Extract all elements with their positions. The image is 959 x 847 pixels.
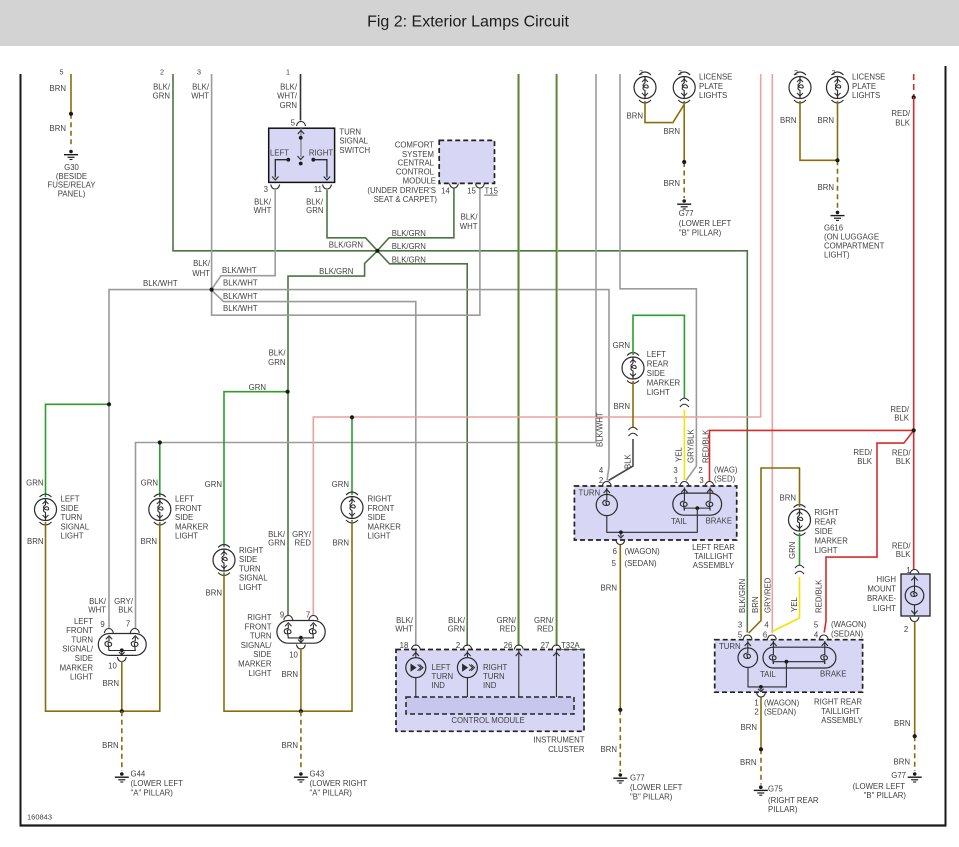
svg-text:ASSEMBLY: ASSEMBLY [693,561,735,570]
svg-text:BLK/GRN: BLK/GRN [392,229,426,238]
cluster pin 26 internal wire [516,651,522,698]
svg-text:MARKER: MARKER [368,522,402,531]
label WAGON SEDAN at right taillight top [831,620,867,639]
vertical label BRN right taillight [751,597,760,613]
node GRN tap on BLK/WHT [107,402,111,406]
wire GRN tap to left side turn signal light [46,404,109,497]
control module box [406,697,574,714]
left taillight pin 6 connector bottom [616,540,625,545]
label BRN at right front side marker [333,539,349,548]
svg-text:BRN: BRN [333,539,349,548]
svg-text:RED/: RED/ [892,541,911,550]
left rear side marker light bulb [622,353,644,384]
high mount pin 2 connector [904,617,919,634]
right front side marker light bulb [341,492,363,523]
wire GRN tap to right side turn signal light [224,392,287,547]
svg-text:9: 9 [100,620,104,629]
svg-text:MODULE: MODULE [403,177,436,186]
svg-text:SWITCH: SWITCH [339,146,370,155]
svg-text:G75: G75 [768,784,783,793]
label RIGHT REAR SIDE MARKER LIGHT [815,508,849,555]
label G616 (ON LUGGAGE COMPARTMENT LIGHT) [824,224,885,260]
wire GRY/BLK from top to left rear taillight pin 1 [620,74,696,481]
wire BRN right rear marker top [749,468,800,633]
svg-text:MOUNT: MOUNT [867,585,896,594]
svg-text:7: 7 [126,620,130,629]
svg-text:GRN: GRN [26,478,43,487]
svg-text:IND: IND [432,681,446,690]
pin number 1 cut at top [286,68,290,77]
svg-text:5: 5 [612,559,617,568]
svg-text:10: 10 [108,662,117,671]
label RED/BLK above junction [890,405,909,423]
svg-text:BLK/: BLK/ [153,83,171,92]
svg-text:WHT: WHT [88,606,106,615]
wire BRN dashed to G43 [300,711,302,771]
svg-text:SIGNAL/: SIGNAL/ [62,645,94,654]
ground G77 right [908,772,922,782]
vertical label BLK/GRN right taillight [738,579,747,613]
svg-text:LIGHT: LIGHT [239,583,262,592]
svg-text:G30: G30 [64,163,79,172]
svg-text:10: 10 [289,651,298,660]
cluster pin 26 connector [504,641,524,650]
svg-text:LIGHTS: LIGHTS [852,91,880,100]
svg-text:RED: RED [295,539,312,548]
label BRN at G77 upper [664,179,680,188]
svg-text:MARKER: MARKER [60,663,94,672]
label LEFT [270,149,289,158]
label INSTRUMENT CLUSTER [533,736,584,754]
wire RED/BLK horizontal to left rear taillight pin 3 [710,430,913,482]
left taillight pin 2 connector [599,466,611,486]
left taillight pin 3 connector [698,466,714,486]
wire GRY/BLK from top to left front turn signal pin 7 [136,74,597,628]
svg-text:SYSTEM: SYSTEM [402,150,434,159]
svg-text:BRN: BRN [282,670,298,679]
svg-text:GRN: GRN [448,625,465,634]
left rear taillight assembly box [574,486,736,540]
svg-text:MARKER: MARKER [175,522,209,531]
svg-text:T32A: T32A [561,641,580,650]
svg-text:GRN: GRN [788,542,797,559]
right side turn signal light bulb [213,545,235,576]
svg-text:TURN: TURN [483,672,505,681]
ground G30 [64,150,78,160]
label RED/BLK right of branch [892,449,911,467]
svg-text:FRONT: FRONT [66,626,93,635]
svg-text:TURN: TURN [250,632,272,641]
svg-text:BRN: BRN [740,758,756,767]
license plate light bulb left B [673,72,695,103]
svg-text:BLK/: BLK/ [280,83,298,92]
svg-text:BRN: BRN [664,127,680,136]
svg-text:BLK/WHT: BLK/WHT [223,304,258,313]
label YEL vertical [675,447,684,462]
ground G75 [754,785,768,795]
svg-text:BRN: BRN [627,112,643,121]
svg-text:SIDE: SIDE [815,527,833,536]
svg-text:BRN: BRN [894,719,910,728]
svg-text:YEL: YEL [675,447,684,462]
svg-text:G44: G44 [131,770,146,779]
vertical label GRY/RED right taillight [763,577,772,613]
svg-text:LIGHT: LIGHT [70,673,93,682]
svg-text:HIGH: HIGH [877,575,897,584]
wire BRN left front ground bus [46,522,160,711]
svg-text:BRN: BRN [206,589,222,598]
wire BLK/GRN pin 2 vertical to junction [173,74,376,251]
label G75 (RIGHT REAR PILLAR) [768,784,819,814]
svg-text:LIGHT: LIGHT [368,532,391,541]
wire GRN/RED to cluster pin 27 [556,74,557,646]
svg-text:WHT: WHT [254,206,272,215]
svg-text:WHT: WHT [191,92,209,101]
label BLK/WHT two line left of junction [192,259,211,278]
label BRN high mount upper [894,719,910,728]
cluster pin 27 internal wire [553,651,559,698]
label BLK/WHT at comfort pin 15 wire [460,213,479,232]
label BRN mid [50,124,66,133]
node GRN tap on GRY/RED [350,415,354,419]
label CONTROL MODULE [451,716,524,725]
svg-text:SIGNAL: SIGNAL [339,137,368,146]
right turn indicator lamp [457,651,477,698]
svg-text:BLK/GRN: BLK/GRN [319,267,353,276]
svg-text:BRAKE: BRAKE [820,670,846,679]
svg-text:TURN: TURN [339,127,361,136]
ground G43 [294,772,308,782]
svg-text:(LOWER LEFT: (LOWER LEFT [853,782,906,791]
node junction on BRN wire [69,112,73,116]
svg-text:BRN: BRN [818,183,834,192]
label G43 (LOWER RIGHT A PILLAR) [310,770,368,798]
license plate light bulb left A [634,72,656,103]
high mount bulb [905,576,924,617]
switch LEFT contact [272,158,290,180]
label LEFT REAR SIDE MARKER LIGHT [647,350,681,397]
wire RED/BLK dashed stub at top right [913,74,915,97]
svg-text:11: 11 [314,185,322,194]
svg-text:BRN: BRN [601,745,617,754]
svg-text:"A" PILLAR): "A" PILLAR) [310,789,353,798]
svg-text:LIGHT: LIGHT [815,546,838,555]
svg-text:4: 4 [764,621,769,630]
label GRN at right front side marker [332,480,349,489]
svg-text:BLK: BLK [624,453,633,469]
svg-text:2: 2 [794,70,798,77]
svg-text:FRONT: FRONT [245,622,272,631]
pin 2 cut above license right B [832,70,836,77]
comfort module pin 14 connector [441,184,458,196]
svg-text:WHT: WHT [395,625,413,634]
svg-text:"B" PILLAR): "B" PILLAR) [679,229,722,238]
left assembly pin 7 connector [126,620,139,634]
svg-text:27: 27 [541,641,550,650]
svg-text:18: 18 [400,641,409,650]
svg-text:LEFT REAR: LEFT REAR [692,543,735,552]
label GRN at right side turn signal [205,480,222,489]
left turn indicator lamp [406,651,426,698]
svg-text:3: 3 [699,476,703,485]
label GRN/RED at cluster pin 26 [497,616,517,634]
svg-text:BLK: BLK [857,457,873,466]
wire BLK/WHT junction to left rear taillight pin 2 [212,290,609,481]
label GRY/RED at right assembly [292,530,312,548]
label RIGHT TURN IND [483,663,507,690]
right taillight pin 1 connector bottom [757,693,766,698]
svg-text:"A" PILLAR): "A" PILLAR) [131,789,174,798]
label HIGH MOUNT BRAKE-LIGHT [867,575,896,613]
wire BRN from pin 5 to ground G30 [70,74,72,148]
label GRN at left side turn signal [26,478,43,487]
svg-text:BLK/: BLK/ [461,213,479,222]
label BLK/GRN at cluster pin 2 [448,616,466,634]
label BRN top [50,84,66,93]
svg-text:BRN: BRN [601,584,617,593]
svg-text:2: 2 [599,476,603,485]
label 6 WAGON 5 SEDAN [612,547,660,568]
svg-text:(LOWER LEFT: (LOWER LEFT [679,219,732,228]
svg-text:(LOWER RIGHT: (LOWER RIGHT [310,779,368,788]
svg-text:TAIL: TAIL [760,670,777,679]
svg-text:(WAGON): (WAGON) [625,547,661,556]
svg-text:1: 1 [286,68,290,77]
right taillight TURN bulb [738,641,758,668]
svg-text:CONTROL MODULE: CONTROL MODULE [451,716,524,725]
svg-text:IND: IND [483,681,497,690]
ground G44 [115,772,129,782]
label LEFT FRONT TURN SIGNAL SIDE MARKER LIGHT [60,617,94,682]
svg-text:GRY/RED: GRY/RED [763,577,772,613]
svg-text:BRN: BRN [50,124,66,133]
svg-text:PLATE: PLATE [699,82,723,91]
label BLK/GRN lower right [392,255,426,264]
label BLK/WHT line 4 [223,304,258,313]
label RIGHT FRONT SIDE MARKER LIGHT [368,495,402,541]
svg-text:2: 2 [678,70,682,77]
svg-text:YEL: YEL [790,597,799,612]
left taillight tail brake dual bulb [673,488,722,516]
left taillight pin 1 connector [673,466,689,486]
svg-text:RIGHT: RIGHT [247,613,271,622]
label BRN right rear marker [780,494,796,503]
wire BRN high mount to G77 right [914,622,916,772]
svg-text:2: 2 [904,625,908,634]
svg-text:GRN: GRN [613,341,630,350]
left front turn signal side marker assembly [98,634,146,656]
label BRN at right side turn signal [206,589,222,598]
svg-text:G77: G77 [679,209,694,218]
pin 2 cut above license left A [639,70,643,77]
cluster pin 18 connector [400,641,421,650]
label RED/BLK top right [891,109,910,127]
label RIGHT SIDE TURN SIGNAL LIGHT [239,546,268,592]
label BRN high mount lower [894,758,910,767]
label BRN license left B [664,127,680,136]
svg-text:TURN: TURN [432,672,454,681]
svg-text:WHT/: WHT/ [277,92,298,101]
svg-text:3: 3 [738,621,742,630]
wire BLK to left rear taillight pin 2 [609,439,634,481]
svg-text:BLK/WHT: BLK/WHT [223,292,258,301]
svg-text:BRN: BRN [741,723,757,732]
svg-text:MARKER: MARKER [647,379,681,388]
right rear side marker light bulb [789,505,811,536]
svg-text:PLATE: PLATE [852,82,876,91]
svg-text:SIGNAL: SIGNAL [239,574,268,583]
svg-text:LEFT: LEFT [270,149,289,158]
svg-text:Fig 2: Exterior Lamps Circuit: Fig 2: Exterior Lamps Circuit [367,14,569,31]
wire RED/BLK branch to right rear taillight pin 4 [824,432,912,633]
node BRN right taillight junction [759,747,763,751]
license plate light bulb right B [827,72,849,103]
drawing number 160843 [27,813,52,822]
svg-text:BRN: BRN [103,679,119,688]
label TURN left taillight [579,489,601,498]
node RED/BLK junction at 914,430 [912,428,916,432]
svg-text:BLK/GRN: BLK/GRN [738,579,747,613]
svg-text:GRN: GRN [306,206,323,215]
svg-text:BLK/: BLK/ [269,349,287,358]
svg-text:BRN: BRN [614,402,630,411]
svg-text:1: 1 [674,476,678,485]
wire YEL to left rear taillight pin 1 [683,410,685,480]
svg-text:5: 5 [291,119,296,128]
label BRN at G43 [282,741,298,750]
label BRN at left assembly pin 10 [103,679,119,688]
svg-text:GRN: GRN [268,358,285,367]
svg-text:BLK: BLK [894,414,910,423]
wire BLK/WHT junction to comfort module pin 15 [212,189,480,316]
label BRN license left A [627,112,643,121]
label LICENSE PLATE LIGHTS right [852,73,885,101]
right rear taillight assembly box [715,640,863,693]
turn signal switch box [269,128,335,182]
svg-text:9: 9 [280,611,284,620]
label GRN/RED at cluster pin 27 [534,616,554,634]
switch pin 3 connector [264,185,280,195]
wire BLK/GRN switch pin 11 to junction [327,190,377,250]
pin number 3 cut at top [197,68,201,77]
svg-text:4: 4 [599,466,604,475]
switch pin 5 connector [291,119,306,128]
wire BRN left rear marker bottom [632,381,634,427]
svg-text:TURN: TURN [239,564,261,573]
label RIGHT REAR TAILLIGHT ASSEMBLY [814,698,863,725]
comfort module pin 15 connector [467,184,484,196]
label RED/BLK at high mount [892,541,911,559]
svg-text:MARKER: MARKER [238,660,272,669]
node BRN license left junction [682,160,686,164]
svg-text:5: 5 [60,68,64,77]
svg-text:LIGHT: LIGHT [249,669,272,678]
svg-text:CENTRAL: CENTRAL [398,159,435,168]
svg-text:SIDE: SIDE [368,513,386,522]
label TAIL right taillight [760,670,777,679]
svg-text:BRN: BRN [780,116,796,125]
svg-text:2: 2 [754,708,758,717]
svg-text:LEFT: LEFT [61,495,80,504]
svg-text:RIGHT: RIGHT [368,495,392,504]
svg-text:CONTROL: CONTROL [396,168,435,177]
label BLK/WHT at cluster pin 18 [395,616,414,634]
svg-text:2: 2 [456,641,460,650]
wire GRN tap to right front side marker light [351,419,353,496]
right assembly pin 9 connector [280,611,293,621]
svg-text:LEFT: LEFT [74,617,93,626]
node BRN license right junction [835,158,839,162]
left assembly pin 10 connector [108,657,126,671]
wire BRN left taillight to G77 [619,545,621,772]
svg-text:BLK: BLK [895,118,911,127]
svg-text:LIGHT: LIGHT [873,604,896,613]
wire BLK/GRN junction to right rear taillight [379,251,748,633]
svg-text:GRN: GRN [141,478,158,487]
svg-text:GRN: GRN [205,480,222,489]
wire GRY/RED from top to right front turn signal pin 7 [313,74,760,615]
pin number 2 cut at top [160,68,164,77]
label GRY/BLK vertical [687,429,696,463]
svg-text:(SED): (SED) [714,474,736,483]
node GRN tap on BLK/GRN [286,390,290,394]
wire RED/BLK main vertical to high mount brake light [913,97,915,570]
svg-text:SIDE: SIDE [253,650,271,659]
svg-text:3: 3 [673,466,677,475]
label BLK vertical [624,453,633,469]
label LEFT FRONT SIDE MARKER LIGHT [175,495,209,541]
svg-text:FRONT: FRONT [368,504,395,513]
svg-text:REAR: REAR [815,518,837,527]
label BRN at G616 [818,183,834,192]
wire BLK/WHT switch pin 3 to junction [212,190,275,289]
svg-text:14: 14 [441,186,450,195]
svg-text:(LOWER LEFT: (LOWER LEFT [630,783,683,792]
svg-text:(WAGON): (WAGON) [764,698,800,707]
label BLK/WHT below pin 3 [254,198,272,215]
svg-text:"B" PILLAR): "B" PILLAR) [630,793,673,802]
svg-text:BLK/GRN: BLK/GRN [392,242,426,251]
high mount pin 1 connector [906,566,919,575]
cluster pin T32A [560,641,583,650]
right taillight tail brake dual bulb [763,641,836,668]
svg-text:BLK/: BLK/ [193,259,211,268]
svg-text:"B" PILLAR): "B" PILLAR) [864,791,907,800]
label BLK/WHT at pin 3 [191,83,210,101]
svg-text:(SEDAN): (SEDAN) [831,629,863,638]
svg-text:LICENSE: LICENSE [852,73,885,82]
label BRN license right A [780,116,796,125]
label GRN at left front side marker [141,478,158,487]
svg-text:RED: RED [500,625,517,634]
svg-text:BRN: BRN [282,741,298,750]
switch pin 11 connector [314,185,332,195]
label G77 (LOWER LEFT B PILLAR) mid [630,774,683,802]
switch wiper pole [298,128,305,165]
svg-text:BLK: BLK [896,550,912,559]
svg-text:RED/: RED/ [891,109,910,118]
right taillight pin 4 connector [814,621,828,640]
label G30 (BESIDE FUSE/RELAY PANEL) [48,163,97,198]
svg-text:SIDE: SIDE [75,654,93,663]
label BRN at left front side marker [141,537,157,546]
svg-text:1: 1 [754,698,758,707]
svg-text:3: 3 [264,185,268,194]
pin 2 cut above license left B [678,70,682,77]
svg-text:BRN: BRN [27,537,43,546]
label RED/BLK left of branch [853,448,872,466]
svg-text:TAILLIGHT: TAILLIGHT [694,552,733,561]
